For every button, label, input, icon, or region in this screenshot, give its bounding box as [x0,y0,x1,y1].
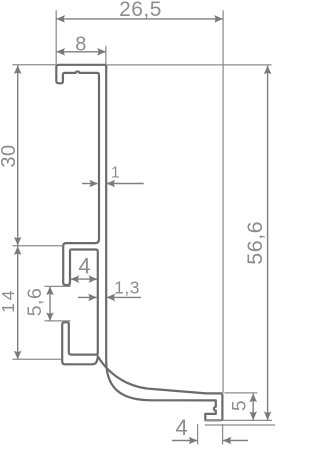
svg-text:5,6: 5,6 [24,288,46,317]
ext 4-bottom left vertical [197,424,199,445]
dim 1 leaders [82,183,98,185]
arrow 56,6 bottom [264,411,272,420]
ext top-left horizontal [12,64,56,66]
profile outline [56,65,222,421]
arrow 14 bottom [14,351,22,360]
arrow 4 bottom right points left [223,437,232,445]
dimension lines [18,19,268,441]
arrow 1,3 right points left [107,294,116,302]
ext bottom-right second [205,424,275,426]
dim 5 [252,394,254,421]
ext bottom-right (56,6 bottom) [205,419,272,421]
ext 5 top [224,392,257,394]
arrow 1,3 left points right [88,294,97,302]
arrow 1 right points left [106,180,115,188]
dim 56,6 [267,66,269,421]
arrow 14 top [14,246,22,255]
ext left vertical (26,5 / 8 left) [55,10,57,64]
ext 5,6 top [45,285,71,287]
arrow 1 left points right [89,180,98,188]
arrow 4 groove right [89,275,98,283]
arrow 5,6 bottom [46,312,54,321]
svg-text:1: 1 [111,164,120,181]
svg-text:1,3: 1,3 [114,277,140,297]
arrow 8 left [56,48,65,56]
svg-text:8: 8 [75,33,87,55]
arrow 4 bottom left points right [189,437,198,445]
arrow 26,5 left [56,15,65,23]
dim 8 [56,51,106,53]
svg-text:30: 30 [0,144,20,167]
extension lines [12,10,275,444]
dim 4 groove [71,278,97,280]
arrow 8 right [97,48,106,56]
svg-text:4: 4 [176,415,189,440]
svg-text:26,5: 26,5 [119,0,162,21]
ext mid-left (30 bottom / 14 top) [12,245,63,247]
arrow 30 top [14,65,22,74]
arrow 26,5 right [214,15,223,23]
dim 1,3 leaders [78,296,97,298]
dim 14 [17,246,19,359]
ext 8 right vertical [105,46,107,65]
arrow 4 groove left [71,275,80,283]
dim 4 bottom leaders [172,440,197,442]
svg-text:14: 14 [0,287,18,312]
ext 14 bottom [12,358,61,360]
dim 26,5 [56,18,223,20]
arrow 30 bottom [14,237,22,246]
ext 26,5 right vertical long [222,10,224,393]
dim 5,6 [49,286,51,321]
ext 4-bottom right vertical [222,424,224,445]
svg-text:4: 4 [78,254,91,279]
svg-text:5: 5 [230,400,251,411]
svg-text:56,6: 56,6 [243,221,267,265]
arrow 56,6 top [264,66,272,75]
arrow 5 bottom [249,411,257,420]
arrow 5,6 top [46,286,54,295]
ext top-right horizontal (56,6 top) [107,64,272,66]
ext 5,6 bottom [45,320,71,322]
dim 30 [17,65,19,245]
arrow 5 top [249,394,257,403]
